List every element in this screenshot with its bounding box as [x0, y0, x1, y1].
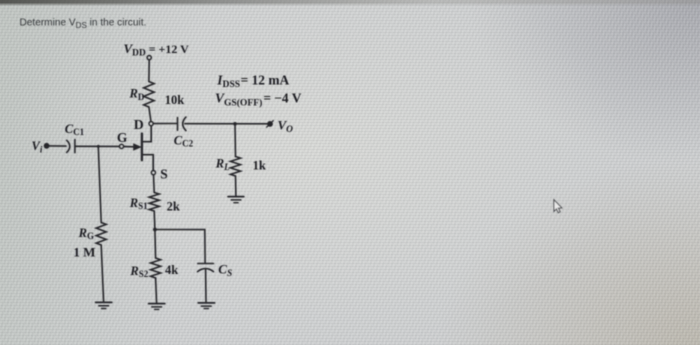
resistor RS1	[149, 193, 159, 212]
junction RS2/CS	[153, 228, 157, 232]
svg-text:RD: RD	[129, 87, 145, 102]
title text	[20, 17, 147, 30]
svg-text:G: G	[117, 130, 128, 145]
svg-text:IDSS= 12 mA: IDSS= 12 mA	[216, 72, 289, 90]
svg-text:RG: RG	[78, 226, 94, 241]
wire VDD to RD	[148, 60, 150, 82]
wire junction to RL	[234, 124, 237, 157]
ground (RG)	[96, 302, 112, 308]
svg-text:1k: 1k	[253, 159, 266, 173]
wire CS to ground	[205, 270, 207, 303]
power terminal VDD +12 V	[124, 41, 190, 60]
capacitor CS	[198, 261, 233, 279]
wire node S to RS1	[153, 175, 156, 193]
svg-text:CS: CS	[218, 261, 232, 279]
svg-text:2k: 2k	[167, 200, 180, 214]
wire RG to ground	[101, 245, 103, 302]
svg-text:1 M: 1 M	[73, 245, 95, 260]
transistor Q1 (n-channel JFET)	[124, 126, 153, 170]
resistor RD	[144, 82, 154, 108]
resistor RL	[231, 157, 241, 177]
node D	[134, 117, 153, 132]
junction output/RL	[233, 122, 237, 126]
capacitor CC2	[174, 117, 194, 149]
node S	[151, 166, 167, 181]
ground (RS2)	[149, 304, 165, 310]
wire CC2 to node Vo	[185, 123, 268, 125]
wire junction to RG	[98, 146, 101, 222]
node G	[117, 130, 128, 149]
svg-text:Vi: Vi	[32, 139, 43, 154]
wire RS1 to junction	[153, 211, 156, 229]
wire RS2 to ground	[156, 278, 157, 303]
ground (RL)	[228, 197, 244, 203]
svg-text:RS2: RS2	[129, 264, 148, 279]
wire RD to node D	[149, 107, 151, 121]
svg-text:RL: RL	[215, 157, 230, 172]
svg-text:Determine VDS in the circuit.: Determine VDS in the circuit.	[20, 17, 147, 30]
mouse cursor	[554, 200, 562, 213]
svg-text:RS1: RS1	[129, 196, 148, 211]
wire Vi to CC1	[49, 145, 66, 147]
svg-text:10k: 10k	[165, 93, 185, 107]
svg-text:CC2: CC2	[174, 133, 194, 148]
resistor RG	[96, 223, 106, 246]
wire RL to ground	[235, 176, 237, 196]
svg-text:VGS(OFF)= −4 V: VGS(OFF)= −4 V	[215, 90, 302, 108]
wire junction to CS branch	[155, 230, 205, 263]
svg-text:VDD = +12 V: VDD = +12 V	[124, 41, 190, 59]
junction gate/RG	[97, 145, 100, 148]
wire CC1 to node G	[75, 145, 120, 147]
ground (CS)	[198, 303, 214, 309]
svg-text:CC1: CC1	[65, 122, 85, 137]
svg-text:VO: VO	[278, 117, 294, 135]
wire junction to RS2	[154, 230, 157, 259]
svg-text:D: D	[134, 117, 144, 132]
svg-text:4k: 4k	[165, 263, 178, 277]
svg-text:S: S	[160, 166, 167, 181]
node Vi (input terminal)	[32, 139, 49, 154]
wire node D to CC2	[153, 123, 177, 125]
capacitor CC1	[65, 122, 85, 153]
resistor RS2	[151, 258, 161, 278]
node Vo (output terminal)	[267, 117, 294, 135]
